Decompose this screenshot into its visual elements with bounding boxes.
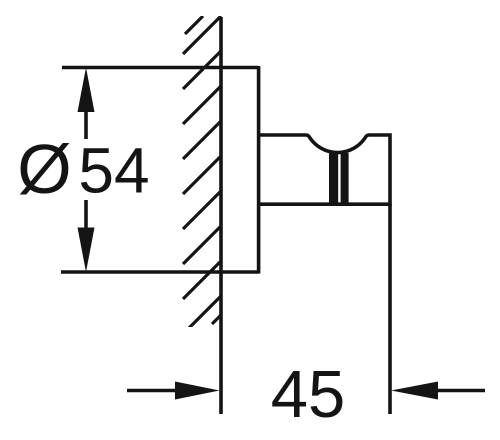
dimension arrow 45 left (pointing right) [175,382,220,400]
dimension line upper segment (diameter 54) [84,108,88,139]
svg-text:54: 54 [78,134,149,206]
mounting plate right edge [257,66,261,274]
dimension line lower segment (diameter 54) [84,200,88,232]
dimension arrow down [78,228,95,273]
wall hatching [183,16,221,334]
hook outline (side view) [259,135,390,204]
dimension arrow 45 right (pointing left) [391,382,438,400]
wall line [219,17,223,414]
dimension arrow up [78,68,95,113]
dimension line 45 left part [127,389,176,393]
svg-text:Ø: Ø [17,130,71,208]
extension line top (plate top edge, y=67) [62,66,259,70]
dimension line 45 right part [437,389,485,393]
hook front face shading bar right [341,153,349,204]
svg-text:45: 45 [271,357,346,432]
extension line right (hook edge extended down) [388,204,392,414]
hook front face shading bar left [329,153,338,204]
extension line bottom (plate bottom edge, y=272) [61,270,259,274]
